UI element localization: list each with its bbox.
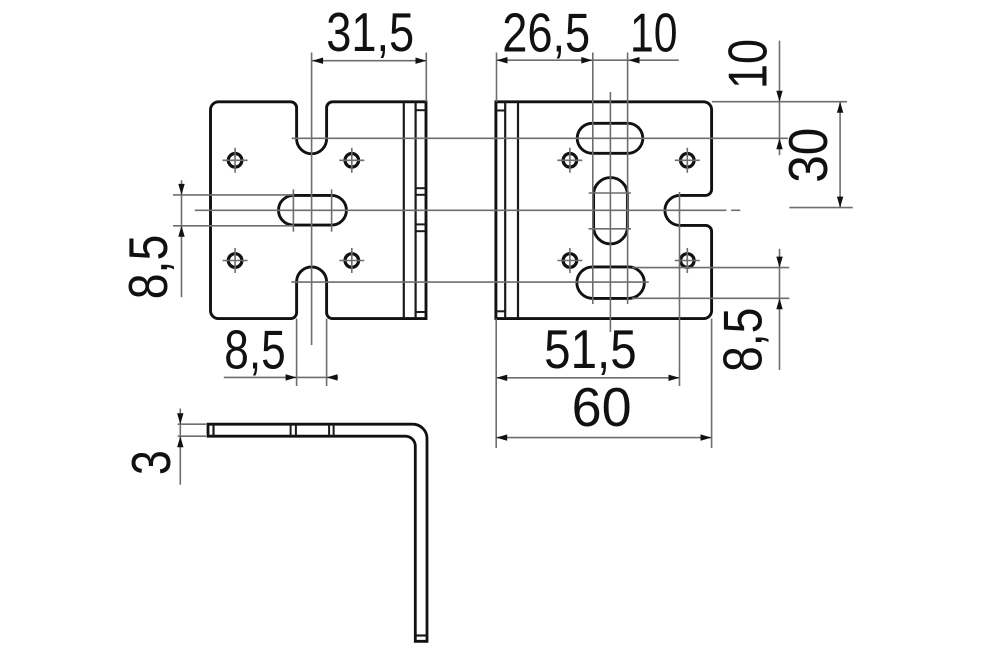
extension/centre line through notches — [311, 53, 313, 346]
extension line slot right tangent — [627, 53, 629, 305]
right plate bend tangent line 1 — [504, 102, 506, 319]
lower horizontal centre line — [291, 281, 648, 283]
left plate outline with top and bottom notches — [211, 102, 427, 319]
side view slot projection ticks — [290, 424, 292, 436]
extension line right plate left edge — [496, 53, 498, 102]
right plate holes — [563, 154, 577, 168]
svg-text:8,5: 8,5 — [713, 308, 774, 373]
right plate outline with right-edge notch — [496, 102, 712, 319]
dimension line 30 — [839, 102, 841, 208]
right plate lower slot — [577, 267, 645, 299]
upper horizontal centre line — [292, 137, 788, 139]
extension line bottom left — [495, 319, 497, 448]
extension line bottom right — [711, 319, 713, 448]
svg-text:31,5: 31,5 — [326, 2, 414, 63]
extension line lower slot bottom — [632, 297, 789, 299]
extension line lower slot top — [632, 267, 789, 269]
dimension line 10 right — [779, 41, 781, 156]
right plate middle vertical slot — [594, 178, 628, 244]
svg-text:30: 30 — [778, 128, 839, 183]
dimension line 8.5 left — [181, 180, 183, 297]
extension line slot top left — [173, 194, 293, 196]
svg-text:8,5: 8,5 — [224, 319, 286, 380]
svg-text:26,5: 26,5 — [502, 2, 590, 63]
extension line slot bottom left — [173, 225, 293, 227]
left plate flange band ticks — [416, 109, 426, 111]
dimension line 31.5 — [312, 60, 426, 62]
dimension line 8.5 right — [779, 249, 781, 370]
dimension line 60 — [496, 437, 711, 439]
left plate bend tangent line 2 — [415, 102, 417, 319]
right plate flange band ticks — [496, 110, 505, 112]
svg-text:10: 10 — [717, 39, 778, 89]
left slot arc centre mark left — [292, 189, 294, 231]
extension line left plate right edge — [425, 53, 427, 102]
svg-text:51,5: 51,5 — [544, 319, 637, 380]
right plate bend tangent line 2 — [517, 102, 519, 319]
left plate holes — [228, 154, 242, 168]
extension line top edge right — [712, 101, 847, 103]
right plate vertical centre line — [609, 92, 611, 332]
extension line notch wall right — [326, 319, 328, 386]
side view left end tick — [212, 424, 214, 436]
left plate center slot — [278, 195, 346, 225]
middle slot arc centre tick top — [589, 192, 631, 194]
svg-text:60: 60 — [572, 377, 632, 438]
extension line slot left tangent — [592, 53, 594, 305]
dimension line 26.5 and 10 — [497, 59, 679, 61]
dimension line 8.5 bottom — [224, 376, 338, 378]
extension line profile top face — [178, 423, 206, 425]
svg-text:10: 10 — [630, 2, 678, 63]
dimension line 3 — [179, 409, 181, 485]
extension line 30 bottom — [789, 207, 852, 209]
dimension line 51.5 — [496, 377, 679, 379]
svg-text:3: 3 — [121, 450, 182, 475]
left slot arc centre mark right — [331, 189, 333, 231]
extension line profile bottom face — [178, 435, 206, 437]
right plate upper slot — [577, 123, 643, 153]
middle slot arc centre tick bottom — [589, 228, 631, 230]
extension line notch centre 51.5 — [679, 192, 681, 386]
extension line notch wall left — [296, 319, 298, 386]
left plate bend tangent line 1 — [403, 102, 405, 319]
side view L-profile of bracket — [208, 424, 427, 641]
svg-text:8,5: 8,5 — [118, 235, 179, 300]
middle centre line dash — [731, 209, 740, 211]
side view bottom end tick — [415, 634, 427, 636]
middle horizontal centre line — [195, 209, 727, 211]
